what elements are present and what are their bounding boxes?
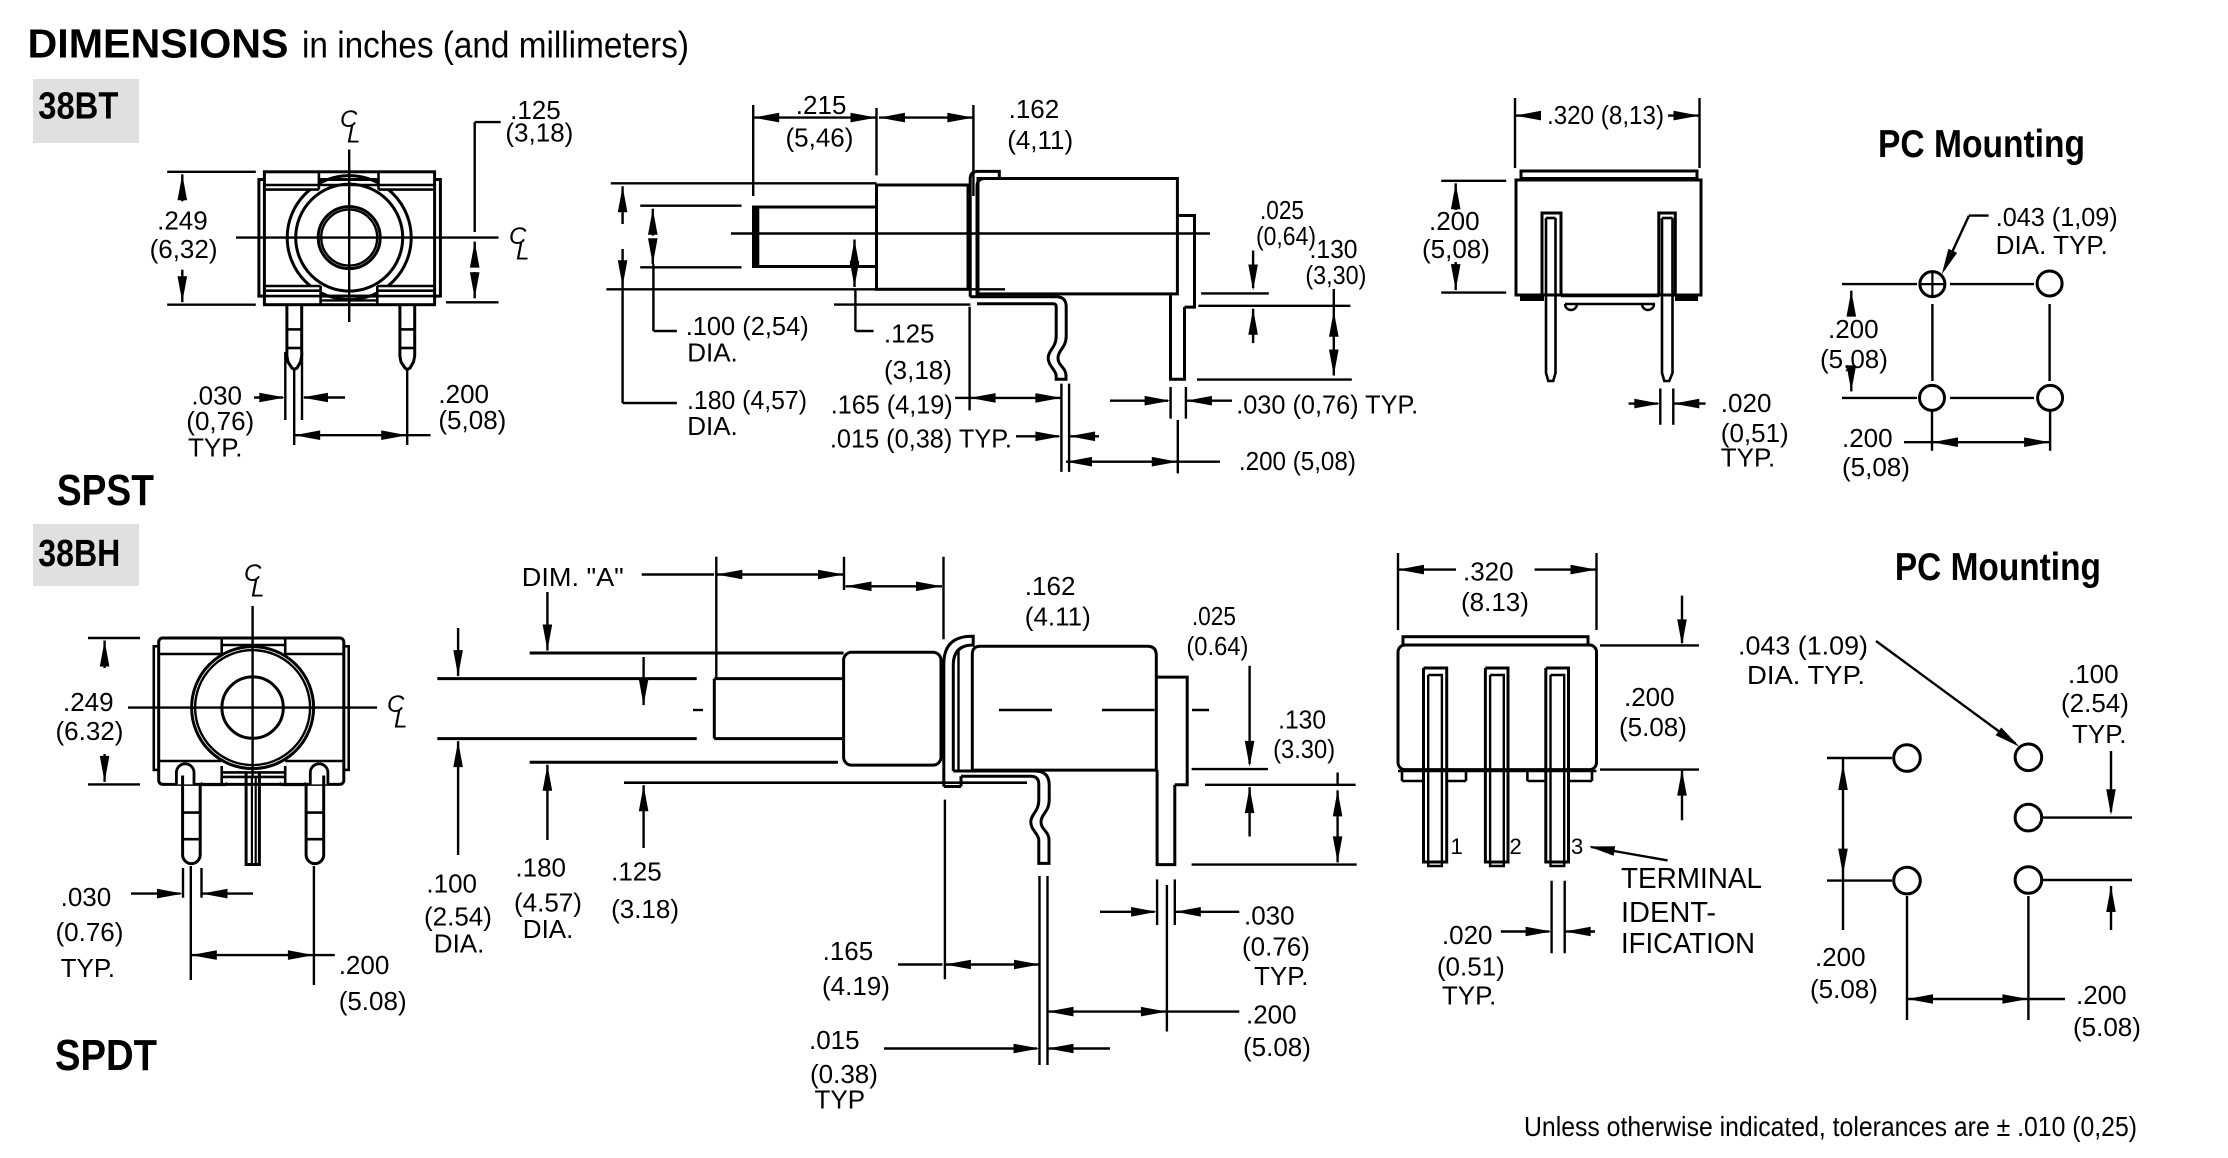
svg-text:.249: .249 (157, 205, 208, 235)
svg-text:(4.11): (4.11) (1025, 601, 1091, 631)
38BH side dia arrows down (453, 650, 463, 676)
38BT side right leg center extension (1177, 420, 1179, 473)
svg-text:.200: .200 (1246, 1000, 1297, 1030)
38BH rear dim .020 tick lines (1550, 881, 1552, 954)
svg-text:.200: .200 (1815, 942, 1866, 972)
38BT rear left leg slot (1542, 213, 1561, 295)
38BT PC dim .200 vertical arrows (1847, 291, 1857, 317)
38BT front dim .125 arrows (470, 242, 480, 268)
38BT side dim .165 extension line (968, 307, 970, 411)
svg-text:.200: .200 (2076, 980, 2127, 1010)
svg-text:.165 (4,19): .165 (4,19) (831, 390, 953, 420)
38BT side dim .030 arrows (1110, 400, 1168, 402)
38BH side seating extension right (1205, 784, 1356, 786)
38BH rear leg 2 (1485, 668, 1508, 862)
38BT front horizontal centerline (236, 236, 499, 238)
svg-text:TYP.: TYP. (188, 433, 242, 463)
38BH front skirt tab right (279, 783, 306, 785)
38BT side dim .125 arrows (850, 240, 860, 266)
svg-text:TYP.: TYP. (1254, 961, 1308, 991)
svg-text:SPST: SPST (57, 466, 154, 515)
38BT rear dim .200 arrows (1451, 183, 1461, 209)
svg-text:TYP: TYP (815, 1085, 866, 1115)
svg-text:2: 2 (1510, 834, 1522, 859)
label 38BH (33, 524, 139, 586)
38BT rear body (1516, 180, 1701, 295)
38BT side dim .180 leader (621, 286, 623, 403)
svg-text:SPDT: SPDT (55, 1031, 157, 1080)
38BT front dim .249 arrows (178, 174, 188, 200)
38BT rear top plate (1521, 171, 1697, 179)
38BT side right leg (1171, 294, 1185, 379)
38BH side dim A arrows (716, 570, 742, 580)
38BH PC hole left bottom (1894, 867, 1921, 894)
38BT rear bottom plate between legs (1561, 295, 1659, 298)
38BH front bottom notch (220, 766, 223, 784)
svg-text:(0,64): (0,64) (1256, 221, 1316, 251)
38BH PC dia leader (1876, 641, 2016, 744)
38BT side leg tip extension line (1197, 378, 1352, 380)
svg-text:(5,08): (5,08) (1422, 234, 1490, 264)
38BH front leg center extension lines (190, 866, 192, 980)
38BH side dim .130 arrows (1333, 790, 1343, 816)
38BT rear feet bumps (1565, 304, 1577, 310)
svg-text:(2.54): (2.54) (2061, 688, 2129, 718)
38BH rear top plate (1403, 637, 1588, 645)
38BT side dim .215 extension lines (752, 105, 754, 196)
svg-text:(3,30): (3,30) (1305, 260, 1366, 290)
38BT PC bottom extension lines (1931, 410, 1933, 451)
38BT front dim .125 leader and label (475, 121, 501, 123)
svg-text:.130: .130 (1278, 705, 1326, 735)
svg-text:.015 (0,38) TYP.: .015 (0,38) TYP. (830, 424, 1012, 454)
38BH side seating line (624, 781, 1027, 784)
svg-text:3: 3 (1571, 834, 1583, 859)
38BH side bracket foot (953, 771, 1049, 800)
38BH PC dim .200 vertical line (1842, 758, 1844, 930)
38BT rear dim .020 arrows (1629, 402, 1658, 404)
svg-text:in inches (and millimeters): in inches (and millimeters) (302, 25, 689, 66)
38BH front dim .200 line (191, 950, 217, 960)
38BT side rear block (1177, 216, 1194, 308)
38BH side shaft solid part (714, 677, 842, 680)
38BT front view back plate (259, 180, 441, 297)
svg-text:TYP.: TYP. (2072, 719, 2126, 749)
38BT front dim .249 extension lines (167, 171, 256, 173)
38BT PC dia leader (1969, 214, 1989, 216)
38BT front bottom band lines (264, 285, 320, 288)
38BT side seating plane line left (834, 303, 970, 305)
38BT PC hole top-left with cross (1920, 272, 1945, 297)
38BT side dim .025 arrows (1252, 251, 1254, 289)
38BH side dim .162 line with arrows (846, 582, 872, 592)
38BT side body (978, 179, 1177, 294)
38BT rear dim .200 extension lines (1441, 180, 1506, 182)
38BH side centerline dashes (693, 709, 703, 711)
svg-text:(5.08): (5.08) (2073, 1012, 2141, 1042)
svg-text:(3.30): (3.30) (1273, 734, 1335, 764)
svg-text:(8.13): (8.13) (1461, 587, 1529, 617)
38BH front skirt tab left (201, 783, 228, 785)
38BH front right corner cutout (310, 764, 328, 785)
38BT front bottom notch verticals (319, 286, 322, 305)
svg-text:(0.64): (0.64) (1186, 631, 1248, 661)
38BH front dim .030 arrows (131, 892, 181, 894)
38BH front dim .249 arrows (100, 641, 110, 667)
svg-text:DIM. "A": DIM. "A" (522, 562, 624, 592)
svg-text:(5.08): (5.08) (1810, 974, 1878, 1004)
38BT front dim .030 tick lines (284, 352, 286, 420)
svg-text:(0.76): (0.76) (1242, 932, 1310, 962)
38BH side dim .030 arrows (1100, 911, 1155, 913)
38BT side dim .130 arrows (1329, 311, 1339, 337)
38BT side dim .165 leader dash (955, 397, 969, 399)
svg-text:Unless otherwise indicated, to: Unless otherwise indicated, tolerances a… (1524, 1111, 2137, 1142)
38BT PC top row lines (1842, 283, 1917, 285)
38BH PC row lines (1827, 757, 1892, 759)
svg-text:DIA.: DIA. (523, 914, 574, 944)
38BH PC bottom extension lines (1906, 896, 1908, 1020)
38BH side bushing dia lines (530, 652, 844, 655)
svg-text:(6.32): (6.32) (56, 716, 124, 746)
38BT side dim .215 line with arrows (753, 113, 779, 123)
38BT side dim .130 stub (1333, 289, 1335, 311)
38BT front view plunger hole inner (321, 210, 377, 266)
38BH side right leg center extension (1166, 885, 1168, 1032)
svg-text:.249: .249 (63, 687, 114, 717)
38BH side dim .200 line with arrows (1048, 1007, 1074, 1017)
38BT side dim .200 line with arrows (1066, 457, 1092, 467)
38BH PC dim .200 bottom line (1907, 994, 1933, 1004)
svg-text:.200: .200 (1429, 206, 1480, 236)
38BH front left wing (154, 646, 159, 770)
38BT front plate top band lines (264, 184, 434, 187)
svg-text:(4.19): (4.19) (822, 971, 890, 1001)
svg-text:IFICATION: IFICATION (1621, 928, 1755, 960)
38BT PC hole bottom-right (2038, 385, 2063, 410)
38BT front dim .125 bottom extension (446, 301, 499, 303)
38BH side dim A extension lines (715, 557, 717, 679)
38BT side wavy left leg (1048, 336, 1066, 379)
svg-text:.100 (2,54): .100 (2,54) (686, 311, 809, 341)
38BT rear right leg (1662, 217, 1673, 220)
svg-text:L: L (347, 122, 360, 149)
38BH rear dim .200 extension lines (1600, 644, 1699, 646)
svg-text:.200: .200 (1828, 314, 1879, 344)
38BH front outer circle (192, 647, 314, 769)
38BH front horizontal centerline (128, 706, 377, 708)
svg-text:.100: .100 (2068, 659, 2119, 689)
38BT side bracket foot (970, 297, 1066, 336)
38BT side right leg tick lines (1169, 387, 1171, 419)
svg-text:.200: .200 (1842, 423, 1893, 453)
svg-text:L: L (251, 576, 264, 603)
38BT side dim .165 line with arrows (970, 393, 996, 403)
38BH front dim .249 extension lines (88, 637, 140, 639)
svg-text:.030: .030 (1244, 901, 1295, 931)
svg-text:.015: .015 (809, 1025, 860, 1055)
38BT front left leg (287, 305, 302, 370)
svg-text:(5.08): (5.08) (1243, 1032, 1311, 1062)
svg-text:.320 (8,13): .320 (8,13) (1547, 100, 1664, 130)
38BT front view front plate (264, 172, 434, 305)
svg-text:.162: .162 (1025, 571, 1076, 601)
38BT side dim .162 line with arrows (879, 113, 905, 123)
38BT rear left leg (1546, 217, 1556, 220)
38BT side mounting bracket front plate (970, 171, 999, 296)
38BH side bushing (844, 652, 941, 765)
38BH rear leg 1 (1424, 668, 1447, 862)
38BH rear dim .020 arrows (1501, 930, 1549, 932)
38BH rear body (1398, 645, 1597, 770)
38BT front view ring circle (296, 184, 403, 291)
svg-text:TYP.: TYP. (1442, 980, 1496, 1010)
38BH front body plate (159, 638, 344, 784)
38BH side dim .130 stub (1336, 773, 1338, 787)
38BT rear bottom black bars (1520, 295, 1544, 301)
38BT side wavy leg tick lines (1060, 384, 1062, 472)
svg-text:DIA. TYP.: DIA. TYP. (1996, 230, 2108, 260)
38BT PC bottom row lines (1842, 397, 1917, 399)
svg-text:L: L (516, 239, 529, 266)
svg-text:(5,46): (5,46) (786, 123, 854, 153)
38BH front ring circle (195, 650, 310, 765)
svg-text:TYP.: TYP. (1721, 443, 1775, 473)
svg-text:.200: .200 (1624, 682, 1675, 712)
38BH side right leg (1157, 770, 1175, 865)
svg-text:(5.08): (5.08) (1619, 712, 1687, 742)
label 38BT (33, 79, 139, 143)
svg-text:.162: .162 (1009, 94, 1060, 124)
38BH rear dim .200 arrows (1681, 596, 1683, 643)
svg-text:.030 (0,76) TYP.: .030 (0,76) TYP. (1236, 390, 1418, 420)
svg-text:(5,08): (5,08) (438, 405, 506, 435)
38BH PC hole right middle (2015, 804, 2042, 831)
38BT side dim .180 arrows (618, 186, 628, 212)
38BT side dim .015 arrows (1016, 435, 1059, 437)
svg-text:DIA.: DIA. (687, 411, 738, 441)
38BH side bracket inner plate line (957, 650, 959, 771)
svg-text:DIA. TYP.: DIA. TYP. (1747, 660, 1865, 690)
svg-text:.200: .200 (339, 950, 390, 980)
svg-text:IDENT-: IDENT- (1621, 897, 1716, 929)
38BH side wavy leg tick lines (1038, 876, 1040, 1065)
38BH side dim .165 extension line (944, 800, 946, 980)
svg-text:.020: .020 (1442, 920, 1493, 950)
38BH front vertical centerline (251, 606, 253, 777)
38BT PC dim .200 bottom line (1904, 441, 1932, 443)
svg-text:.030: .030 (61, 882, 112, 912)
svg-text:.180: .180 (515, 853, 566, 883)
svg-text:(3,18): (3,18) (884, 355, 952, 385)
svg-text:(3.18): (3.18) (611, 894, 679, 924)
svg-text:(2.54): (2.54) (424, 902, 492, 932)
38BT side shaft (754, 207, 877, 267)
svg-text:DIA.: DIA. (434, 929, 485, 959)
svg-text:.125: .125 (611, 857, 662, 887)
38BT front dim .200 line (294, 430, 320, 440)
svg-text:TYP.: TYP. (61, 953, 115, 983)
38BT front vertical centerline (348, 150, 350, 323)
38BH side leg tip extension (1192, 863, 1357, 865)
38BT PC vertical grid lines (1931, 304, 1933, 381)
38BH front plunger circle (222, 677, 283, 738)
38BH side rear block (1156, 677, 1187, 785)
38BT front view plunger hole outer (318, 207, 380, 269)
38BT front view outer circle (287, 176, 411, 300)
38BT side centerline (731, 232, 1210, 234)
38BH front right leg (306, 776, 324, 864)
svg-text:.100: .100 (426, 869, 477, 899)
38BH PC hole left top (1894, 745, 1921, 772)
svg-text:(5,08): (5,08) (1820, 344, 1888, 374)
38BH side dim .165 line with arrows (898, 963, 943, 965)
svg-text:.165: .165 (823, 936, 874, 966)
38BH front dim .030 tick lines (182, 868, 184, 898)
svg-text:(0.51): (0.51) (1437, 951, 1505, 981)
38BH side dim .162 extension line (942, 557, 944, 640)
svg-text:(3,18): (3,18) (505, 118, 573, 148)
svg-text:PC Mounting: PC Mounting (1895, 546, 2101, 589)
svg-text:(6,32): (6,32) (150, 234, 218, 264)
svg-text:.200 (5,08): .200 (5,08) (1239, 446, 1356, 476)
svg-text:.043 (1.09): .043 (1.09) (1738, 631, 1868, 661)
svg-text:.320: .320 (1463, 557, 1514, 587)
38BT side bushing dia extension lines (611, 182, 877, 184)
38BH PC hole right bottom (2015, 867, 2042, 894)
38BT PC hole top-right (2037, 271, 2062, 296)
38BT side dim .100 leader (652, 264, 654, 331)
38BH rear leg 3 (1546, 668, 1569, 862)
svg-text:.025: .025 (1192, 601, 1236, 631)
svg-text:(0,76): (0,76) (186, 406, 254, 436)
38BH side dia arrows up (453, 741, 463, 767)
38BT side bushing (877, 185, 969, 289)
38BH side wavy left leg (1031, 800, 1049, 863)
38BH front top notch (220, 638, 223, 654)
38BH rear dim .320 line with arrows (1398, 565, 1424, 575)
38BT rear dim .320 line with arrows (1515, 111, 1541, 121)
38BH PC hole right top (2015, 744, 2042, 771)
svg-text:.043 (1,09): .043 (1,09) (1996, 202, 2118, 232)
38BH rear terminal leader (1589, 846, 1615, 855)
38BT front leg center extension lines (293, 370, 295, 445)
svg-text:.125: .125 (884, 319, 935, 349)
svg-text:38BT: 38BT (38, 86, 118, 128)
38BT PC hole bottom-left (1920, 385, 1945, 410)
38BT side dim .100 arrows (648, 209, 658, 235)
svg-text:PC Mounting: PC Mounting (1878, 123, 2085, 166)
38BH PC dim .100 arrows (2110, 751, 2112, 812)
38BH rear dim .320 extension lines (1397, 553, 1399, 630)
svg-text:.215: .215 (796, 90, 847, 120)
38BH front center pin (246, 772, 259, 864)
38BT front top notch verticals (318, 172, 321, 190)
38BH side dim .015 arrows (884, 1047, 1037, 1049)
38BH front left leg (183, 776, 201, 864)
svg-text:L: L (394, 707, 407, 734)
38BT side body bottom extension line (1201, 292, 1269, 294)
38BT side shaft dia extension lines (640, 204, 741, 206)
38BT side dim .125 leader (854, 290, 856, 331)
38BH side dim .025 arrows (1248, 666, 1250, 764)
38BT rear dim .020 tick lines (1659, 389, 1661, 425)
svg-text:(5,08): (5,08) (1842, 452, 1910, 482)
svg-text:DIMENSIONS: DIMENSIONS (28, 21, 289, 67)
svg-text:(4.57): (4.57) (514, 888, 582, 918)
svg-text:.020: .020 (1721, 388, 1772, 418)
38BH side shaft broken lines (437, 677, 696, 680)
38BH front left corner cutout (176, 764, 194, 785)
svg-text:38BH: 38BH (38, 533, 120, 575)
38BT front right leg (400, 305, 415, 370)
svg-text:(5.08): (5.08) (339, 986, 407, 1016)
svg-text:TERMINAL: TERMINAL (1621, 863, 1762, 895)
38BT rear right leg slot (1659, 213, 1676, 295)
38BT side seating extension line right (1198, 305, 1350, 307)
38BH side bracket front plate (944, 636, 973, 786)
38BH side right leg tick lines (1156, 879, 1158, 925)
38BT front dim .030 arrows (254, 396, 283, 398)
svg-text:DIA.: DIA. (687, 338, 738, 368)
38BH side body (972, 646, 1156, 770)
svg-text:(4,11): (4,11) (1007, 125, 1073, 155)
38BT rear dim .320 extension lines (1514, 98, 1516, 168)
svg-text:(0.76): (0.76) (56, 917, 124, 947)
38BH front right wing (344, 646, 349, 770)
38BH rear bottom skirt (1398, 770, 1597, 773)
38BH side body bottom extension (1192, 768, 1268, 770)
svg-text:1: 1 (1451, 834, 1463, 859)
